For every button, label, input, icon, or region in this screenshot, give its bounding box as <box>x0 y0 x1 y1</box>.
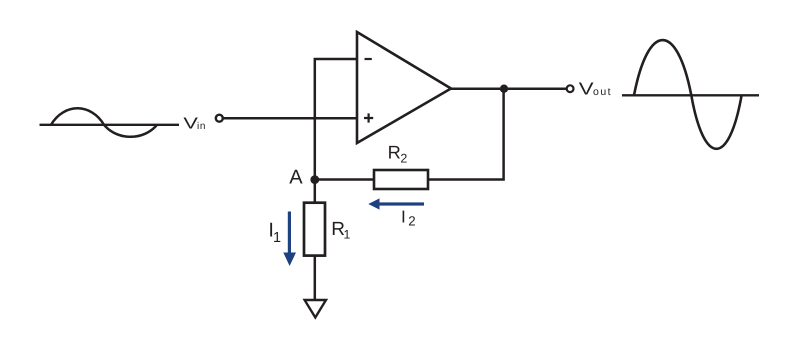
ground <box>305 300 326 318</box>
op-amp U1 <box>357 32 451 143</box>
output signal waveform <box>622 40 759 149</box>
label Vin <box>183 116 206 133</box>
node A <box>310 175 319 184</box>
svg-text:2: 2 <box>408 213 415 228</box>
svg-text:1: 1 <box>273 230 281 246</box>
label Vout <box>579 79 612 99</box>
wire op-amp output to Vout terminal <box>451 87 567 90</box>
svg-text:1: 1 <box>344 227 351 241</box>
resistor R2 <box>374 170 428 189</box>
input signal waveform <box>40 108 180 137</box>
svg-text:A: A <box>289 167 303 189</box>
terminal Vout <box>567 85 574 92</box>
wire R1 to ground <box>314 256 317 300</box>
label R2 <box>388 141 408 165</box>
current arrow I2 <box>368 198 424 209</box>
svg-text:I: I <box>401 207 406 227</box>
resistor R1 <box>304 203 325 256</box>
label R1 <box>331 219 350 241</box>
terminal Vin <box>216 115 223 122</box>
op-amp inverting input marker <box>365 58 372 60</box>
wire Vin to non-inverting input <box>223 117 357 120</box>
svg-text:V: V <box>579 79 594 99</box>
wire feedback: output node down to R2 <box>429 89 504 180</box>
op-amp non-inverting input marker <box>364 113 373 122</box>
wire node A down to R1 <box>314 180 317 202</box>
wire inverting input to node A <box>315 59 357 180</box>
current arrow I1 <box>283 212 296 267</box>
svg-text:2: 2 <box>400 152 407 166</box>
label I1 <box>268 220 281 246</box>
svg-text:R: R <box>388 141 401 162</box>
output node dot <box>500 85 508 93</box>
svg-text:out: out <box>593 86 612 98</box>
label I2 <box>401 207 416 229</box>
svg-text:in: in <box>197 121 206 132</box>
wire node A to R2 <box>315 178 373 181</box>
